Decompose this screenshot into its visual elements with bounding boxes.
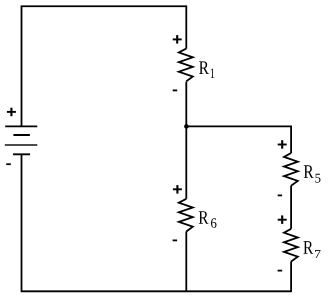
wire top (battery + to R1 top) (22, 6, 187, 126)
battery plate long top (5, 125, 37, 127)
label R6 'R' (199, 211, 209, 224)
battery plate short bottom (13, 153, 30, 155)
wire R5 bottom to R7 top (290, 186, 292, 229)
wire battery - to bottom rail (21, 154, 23, 291)
resistor R1 zigzag (179, 49, 193, 82)
R6 - sign (173, 239, 178, 241)
label R1 'R' (199, 61, 209, 74)
R5 + sign (278, 140, 287, 149)
R7 + sign (278, 215, 287, 224)
wire node to R6 top (185, 126, 187, 198)
label R5 subscript 5 (315, 174, 320, 183)
battery plate short 2 (13, 134, 30, 136)
battery + sign (7, 108, 16, 117)
label R5 'R' (304, 165, 314, 178)
battery B1 plates (5, 126, 38, 154)
wire bottom rail (21, 290, 291, 292)
wire R1 bottom to node (185, 82, 187, 127)
battery - sign (6, 163, 11, 165)
node junction dot (184, 124, 189, 129)
R1 + sign (173, 35, 182, 44)
R6 + sign (173, 185, 182, 194)
resistor R6 zigzag (179, 199, 193, 232)
R7 - sign (278, 270, 283, 272)
R1 - sign (173, 89, 178, 91)
R5 - sign (278, 194, 282, 196)
battery plate long gray (5, 144, 38, 146)
label R7 subscript 7 (315, 250, 321, 258)
wire R7 bottom to bottom rail (290, 262, 292, 293)
label R7 'R' (303, 241, 313, 254)
wire R6 bottom to bottom rail (185, 232, 187, 292)
resistor R5 zigzag (284, 153, 298, 186)
label R1 subscript 1 (211, 69, 214, 78)
wire node to right branch (R5 top) (186, 126, 291, 153)
resistor R7 zigzag (284, 229, 298, 262)
label R6 subscript 6 (211, 218, 217, 228)
